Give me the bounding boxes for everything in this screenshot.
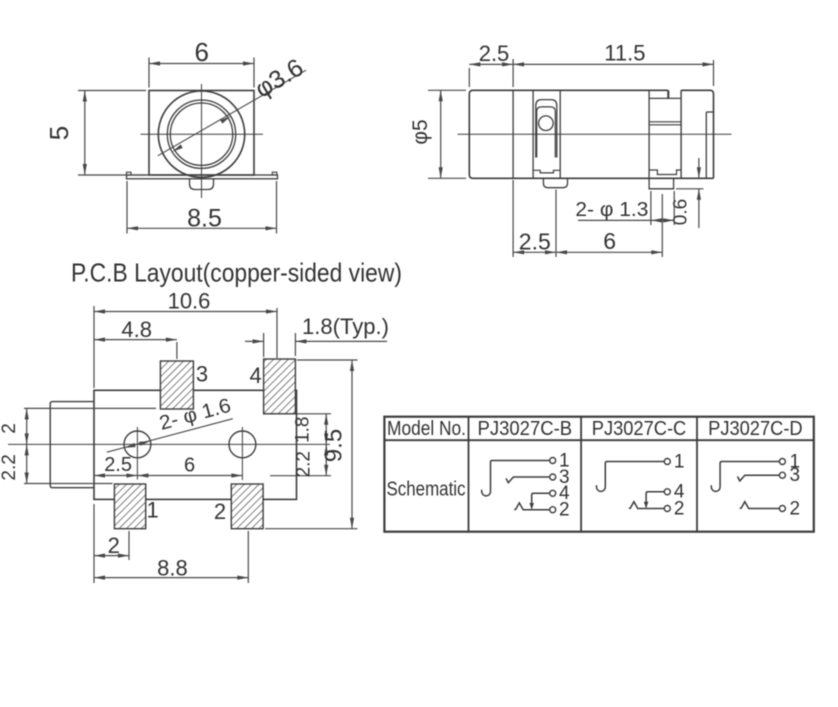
dimension 8.5 text	[187, 205, 222, 233]
schematic C pin 4 wire	[646, 492, 664, 508]
svg-text:2.2: 2.2	[0, 454, 20, 480]
dimension phi5 extension lines	[428, 90, 466, 178]
schematic C pin 2 label	[674, 498, 685, 519]
dimension bottom 6 text	[603, 228, 616, 254]
dimension bottom 2.5 and 6 line	[513, 250, 662, 254]
schematic B pin 2 terminal	[550, 507, 556, 513]
svg-text:8.8: 8.8	[157, 556, 188, 581]
schematic C pin 1 wire	[597, 462, 665, 492]
model table header separator	[384, 439, 813, 441]
svg-text:2: 2	[108, 533, 120, 558]
pcb pad 1 label	[146, 498, 158, 523]
side view top notch	[649, 90, 681, 98]
svg-text:1: 1	[674, 451, 685, 472]
side view body outline	[469, 90, 713, 178]
dimension 0.6 line	[697, 158, 701, 228]
side view lever foot channel	[533, 170, 560, 173]
schematic D pin 1 label	[790, 451, 801, 472]
side view bottom solder tab	[543, 178, 567, 187]
schematic B pin 4 label	[559, 483, 570, 504]
schematic C pin 4 label	[674, 482, 685, 503]
pcb pad 3	[160, 361, 193, 409]
svg-text:Schematic: Schematic	[387, 479, 466, 501]
svg-text:φ5: φ5	[409, 119, 432, 144]
dimension 9.5 text	[321, 429, 348, 462]
schematic C pin 2 terminal	[664, 506, 670, 512]
schematic D pin 2 wire	[740, 502, 780, 509]
model table outer border	[384, 417, 813, 532]
pcb hole 2 vertical crosshair	[241, 427, 243, 480]
dimension 2.5 and 11.5 line	[469, 62, 713, 66]
model table column dividers	[469, 417, 698, 532]
svg-text:2.2: 2.2	[294, 451, 315, 477]
svg-text:2- φ 1.3: 2- φ 1.3	[575, 199, 648, 221]
svg-text:2.5: 2.5	[479, 41, 510, 66]
dimension 1.8typ text	[302, 314, 389, 339]
front view bottom solder tab	[190, 179, 214, 190]
dimension 10.6 text	[168, 289, 211, 314]
dimension 4.8 line	[94, 338, 177, 342]
table header PJ3027C-D	[708, 418, 803, 440]
front view jack hole inner circle	[170, 103, 232, 165]
dimension 5 extension lines	[78, 91, 146, 176]
dimension phi5 line	[439, 90, 443, 178]
schematic B pin 3 wire	[506, 477, 550, 483]
pcb pad 2	[231, 484, 263, 529]
schematic B pin 4 junction	[529, 503, 534, 509]
table header PJ3027C-C	[592, 418, 687, 440]
svg-text:PJ3027C-D: PJ3027C-D	[708, 418, 803, 440]
svg-text:PJ3027C-C: PJ3027C-C	[592, 418, 687, 440]
table row label Schematic	[387, 479, 466, 501]
schematic B pin 3 label	[559, 467, 570, 488]
side view bushing division line	[512, 90, 514, 178]
schematic B pin 1 terminal	[550, 458, 556, 464]
schematic B pin 2 wire	[514, 503, 550, 510]
pcb pad 1	[114, 484, 145, 529]
schematic C pin 4 terminal	[664, 489, 670, 495]
side view pin block	[649, 178, 674, 189]
svg-text:10.6: 10.6	[168, 289, 211, 314]
svg-text:9.5: 9.5	[321, 429, 348, 462]
dimension 8.8 line	[94, 576, 248, 580]
dimension 0.6 extension line	[676, 188, 704, 190]
side view contact section step line	[668, 90, 670, 98]
svg-text:2.5: 2.5	[104, 454, 132, 476]
svg-text:6: 6	[603, 228, 616, 254]
pcb pad 3 label	[196, 362, 208, 387]
svg-text:11.5: 11.5	[604, 40, 645, 65]
side view switch slot right line	[559, 90, 561, 178]
schematic D pin 3 terminal	[779, 472, 785, 478]
dimension 8.8 extension line	[247, 531, 249, 583]
side view end cap outline	[681, 90, 713, 178]
pcb horizontal centerline	[8, 443, 330, 445]
svg-text:PJ3027C-B: PJ3027C-B	[478, 418, 573, 440]
svg-text:P.C.B Layout(copper-sided view: P.C.B Layout(copper-sided view)	[71, 258, 402, 288]
schematic C pin 4 junction	[644, 502, 649, 508]
dimension 1.8typ extension lines	[264, 333, 296, 357]
dimension bottom 2.5 and 6 extension lines	[513, 180, 662, 257]
dimension bottom 2.5 text	[519, 229, 551, 255]
svg-text:1: 1	[146, 498, 158, 523]
svg-text:3: 3	[196, 362, 208, 387]
dimension 6 line	[149, 61, 254, 65]
front view mounting flange	[127, 175, 278, 179]
front view flange left nub	[127, 172, 132, 175]
svg-text:2.5: 2.5	[519, 229, 551, 255]
schematic D pin 3 label	[790, 465, 801, 486]
svg-text:2: 2	[214, 499, 226, 524]
side view contact foot channel	[649, 170, 681, 175]
side view contact fold lines	[649, 122, 681, 125]
dimension 2-phi1.6 text	[157, 395, 233, 435]
front view barrel circle	[158, 91, 244, 177]
side view end cap inner notch	[706, 112, 713, 178]
dimension 10.6 extension lines	[94, 306, 277, 388]
dimension bottom 2 text	[108, 533, 120, 558]
table header PJ3027C-B	[478, 418, 573, 440]
svg-text:1.8: 1.8	[293, 416, 314, 442]
svg-text:8.5: 8.5	[187, 205, 222, 233]
svg-text:2: 2	[0, 423, 20, 434]
front view flange right nub	[272, 172, 277, 175]
dimension 10.6 line	[94, 309, 277, 313]
pcb pad 4 label	[249, 363, 261, 388]
dimension pcb 2.5 text	[104, 454, 132, 476]
side view switch lever pivot circle	[539, 116, 554, 131]
dimension 9.5 extension lines	[265, 360, 358, 529]
schematic D pin 2 terminal	[779, 506, 785, 512]
side view switch lever inner line	[537, 107, 556, 158]
svg-text:1.8(Typ.): 1.8(Typ.)	[302, 314, 389, 339]
dimension left 2 text	[0, 423, 20, 434]
schematic B pin 4 terminal	[550, 490, 556, 496]
dimension 8.5 extension lines	[127, 181, 277, 234]
schematic B pin 3 terminal	[550, 474, 556, 480]
dimension 4.8 extension line	[176, 342, 178, 359]
side view switch slot left line	[532, 90, 534, 178]
dimension 2.5 text	[479, 41, 510, 66]
front view vertical centerline	[201, 84, 203, 198]
svg-text:4: 4	[249, 363, 261, 388]
dimension 8.8 text	[157, 556, 188, 581]
svg-text:2: 2	[674, 498, 685, 519]
dimension 1.8typ line	[245, 339, 387, 343]
dimension 9.5 line	[350, 360, 354, 529]
dimension phi3.6 text	[250, 53, 308, 103]
schematic C pin 2 wire	[629, 502, 665, 509]
dimension phi3.6 diagonal line	[158, 70, 306, 156]
dimension right 1.8 and 2.2 line	[324, 414, 328, 476]
side view switch lever outline	[536, 100, 557, 158]
dimension 2.5 and 11.5 extension lines	[469, 59, 713, 87]
front view body outline	[149, 91, 254, 176]
dimension bottom 2 line	[94, 554, 129, 558]
schematic C pin 1 label	[674, 451, 685, 472]
dimension 8.5 line	[127, 226, 277, 230]
schematic D pin 1 wire	[711, 462, 779, 492]
pcb mounting hole 1	[124, 431, 151, 458]
schematic B pin 1 wire	[482, 461, 550, 496]
pcb layout title	[71, 258, 402, 288]
dimension 2-phi1.3 text	[575, 199, 648, 221]
dimension phi5 text	[409, 119, 432, 144]
side view horizontal centerline	[458, 133, 732, 135]
dimension right 2.2 extension line	[270, 475, 331, 477]
dimension 2-phi1.3 extension lines	[651, 191, 674, 225]
dimension 11.5 text	[604, 40, 645, 65]
schematic C pin 1 terminal	[664, 459, 670, 465]
dimension left 2 and 2.2 line	[25, 408, 29, 483]
svg-text:5: 5	[44, 126, 74, 140]
side view contact section left line	[648, 90, 650, 178]
front view jack hole outer circle	[167, 100, 235, 168]
dimension left 2 extension line	[24, 407, 156, 409]
svg-text:6: 6	[194, 37, 208, 67]
pcb pad 2 label	[214, 499, 226, 524]
schematic B pin 4 wire	[532, 493, 550, 508]
dimension 5 line	[83, 91, 87, 176]
dimension right 2.2 text	[294, 451, 315, 477]
dimension 4.8 text	[121, 317, 152, 342]
schematic D pin 2 label	[790, 498, 801, 519]
dimension right 1.8 text	[293, 416, 314, 442]
pcb hole 1 vertical crosshair	[136, 427, 138, 480]
dimension 5 text	[44, 126, 74, 140]
pcb mounting hole 2	[229, 431, 256, 458]
dimension 2-phi1.3 line	[578, 218, 674, 222]
dimension bottom 2 extension lines	[94, 504, 129, 583]
dimension 6 extension lines	[149, 58, 254, 88]
pcb sleeve protrusion	[50, 402, 94, 488]
dimension pcb 2.5 and 6 line	[94, 473, 242, 477]
front view horizontal centerline	[141, 133, 264, 135]
svg-text:2: 2	[790, 498, 801, 519]
schematic D pin 3 wire	[738, 475, 780, 481]
svg-text:2: 2	[559, 500, 570, 521]
schematic B pin 1 label	[559, 450, 570, 471]
dimension 6 text	[194, 37, 208, 67]
svg-text:Model No.: Model No.	[387, 418, 466, 440]
dimension 2-phi1.6 leader line	[107, 419, 233, 453]
dimension left 2.2 text	[0, 454, 20, 480]
table header Model No.	[387, 418, 466, 440]
dimension right 1.8 extension line	[297, 413, 331, 415]
pcb pad 4	[264, 359, 296, 414]
schematic B pin 2 label	[559, 500, 570, 521]
pcb body outline	[94, 390, 297, 499]
svg-text:4.8: 4.8	[121, 317, 152, 342]
dimension pcb 6 text	[184, 454, 195, 476]
dimension 0.6 text	[671, 199, 692, 225]
svg-text:6: 6	[184, 454, 195, 476]
svg-text:3: 3	[790, 465, 801, 486]
dimension left 2.2 extension line	[24, 483, 113, 485]
schematic D pin 1 terminal	[779, 459, 785, 465]
